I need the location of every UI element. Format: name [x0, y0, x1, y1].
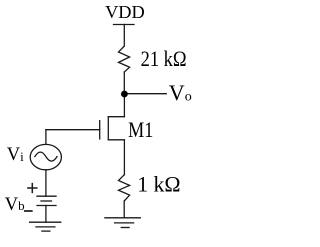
wire battery to left ground [45, 206, 47, 223]
wire M1 source to R2 top [123, 140, 125, 175]
resistor R2 zigzag [119, 175, 130, 201]
wire VDD bar to R1 top [123, 25, 125, 47]
ground left line 1 [30, 221, 61, 223]
node Vo dot [121, 91, 128, 98]
wire node to Vo label [124, 93, 166, 95]
wire source jog horizontal [108, 139, 124, 141]
battery Vb plate short [41, 200, 52, 202]
minus sign of Vb [25, 210, 32, 212]
svg-text:21 kΩ: 21 kΩ [141, 47, 187, 71]
wire R2 bottom to right ground [123, 201, 125, 218]
battery Vb plate long top [37, 195, 56, 197]
plus sign of Vb [28, 184, 37, 193]
wire drain jog horizontal [108, 116, 124, 118]
wire R1 bottom to node Vo [123, 72, 125, 94]
sine symbol inside Vi [35, 152, 57, 161]
wire node to drain jog [123, 94, 125, 117]
svg-text:Vb: Vb [5, 195, 25, 215]
resistor R1 zigzag [119, 46, 130, 72]
ground left line 3 [42, 230, 50, 232]
wire gate lead down to source Vi [45, 130, 47, 145]
battery Vb plate long bottom [37, 205, 56, 207]
svg-text:M1: M1 [128, 118, 153, 142]
source Vi circle [30, 144, 61, 169]
ground left line 2 [36, 226, 55, 228]
ground right line 2 [115, 222, 134, 224]
wire Vi bottom to battery Vb [45, 170, 47, 196]
svg-text:VDD: VDD [105, 2, 145, 22]
ground right line 3 [121, 227, 129, 229]
power rail VDD symbol (bar) [114, 24, 135, 26]
svg-text:1 kΩ: 1 kΩ [137, 171, 180, 196]
transistor M1 channel bar [107, 117, 109, 140]
transistor M1 gate bar [99, 121, 101, 139]
ground right line 1 [105, 217, 140, 219]
wire gate lead horizontal [46, 129, 100, 131]
